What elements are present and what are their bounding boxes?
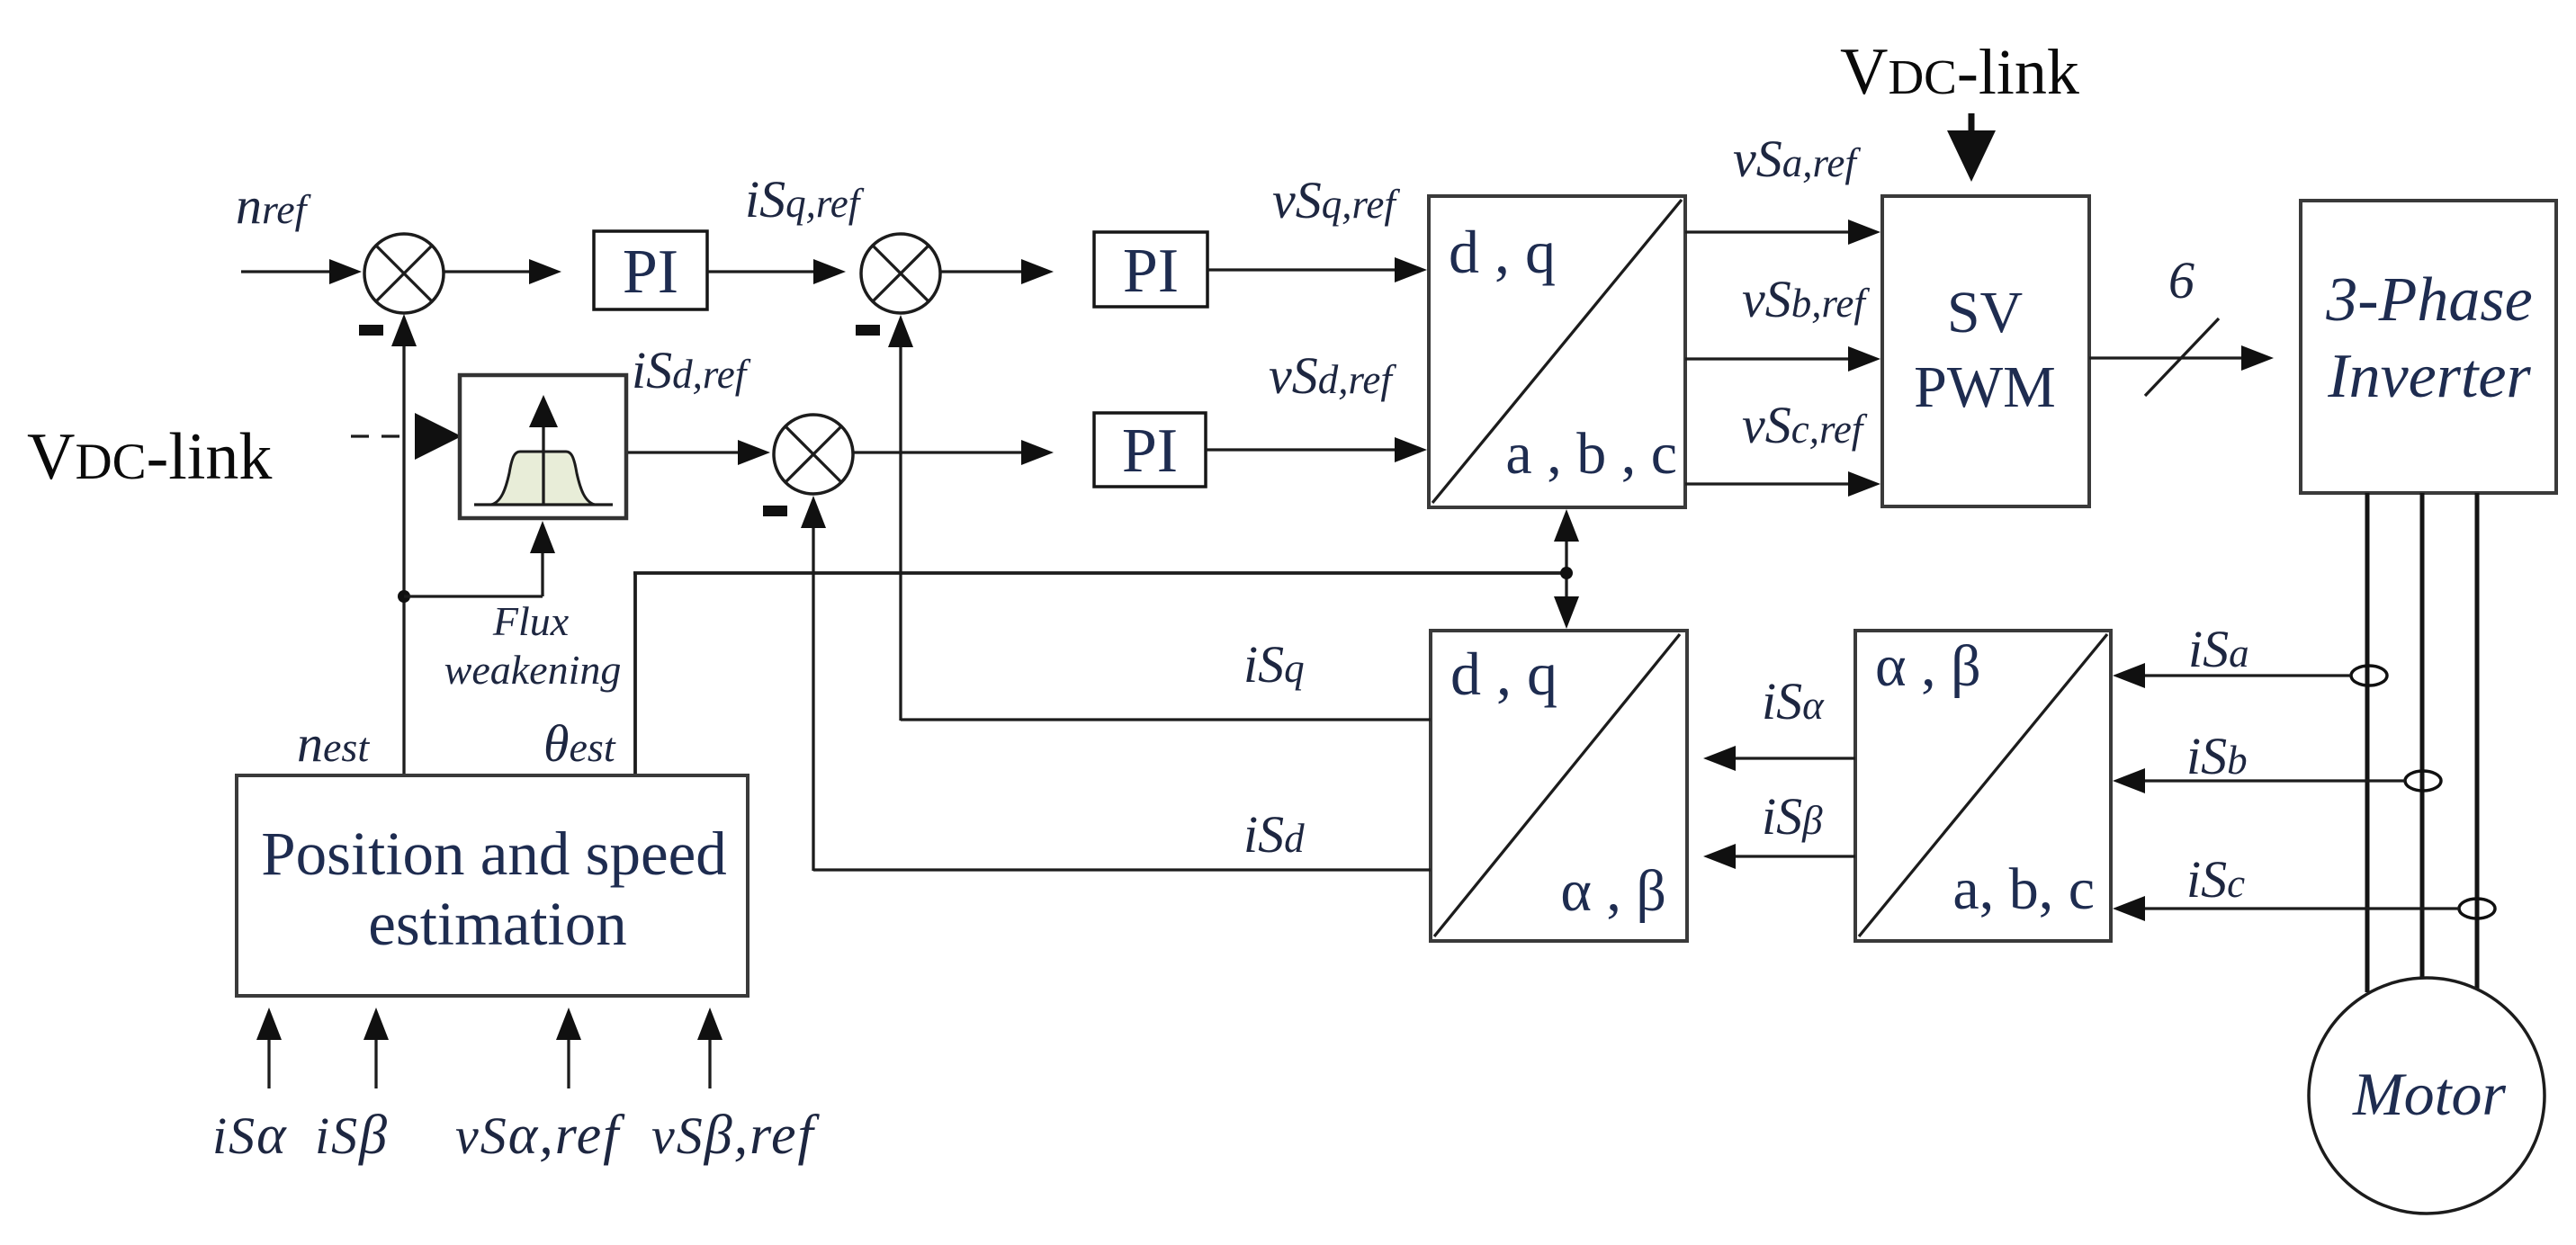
svg-text:weakening: weakening: [444, 647, 622, 693]
minus sign at SJ2: [856, 325, 880, 336]
wire phase a line inverter to motor: [2365, 493, 2370, 992]
minus sign at SJ1: [359, 325, 383, 336]
svg-text:a, b, c: a, b, c: [1952, 856, 2095, 922]
wire iSb sensor to abc-alphabeta transform: [2113, 768, 2405, 793]
svg-text:iSβ: iSβ: [315, 1105, 389, 1166]
wire iSc sensor to abc-alphabeta transform: [2113, 896, 2459, 921]
Motor block: [2309, 978, 2545, 1214]
svg-text:PI: PI: [1123, 237, 1179, 306]
wire flux weakening to SJ3: [628, 440, 770, 465]
bus slash: [2145, 318, 2219, 396]
svg-text:α , β: α , β: [1875, 633, 1981, 699]
wire estimator input vSbeta,ref: [697, 1008, 723, 1088]
summing junction SJ3 (d-axis current): [774, 415, 853, 494]
wire dashed VDC-link input to flux weakening: [351, 413, 462, 460]
svg-text:SV: SV: [1947, 280, 2023, 345]
wire PI3 to dq-abc transform: [1206, 437, 1427, 462]
svg-text:PWM: PWM: [1914, 354, 2056, 420]
svg-text:a , b , c: a , b , c: [1505, 421, 1677, 487]
svg-text:3-Phase: 3-Phase: [2325, 265, 2532, 335]
dq to abc transform block T1: [1429, 196, 1685, 507]
wire vSa,ref T1 to SVPWM: [1685, 219, 1880, 245]
svg-text:6: 6: [2168, 251, 2195, 309]
wire phase c line inverter to motor: [2475, 493, 2480, 990]
wire iSalpha T3 to T2: [1703, 746, 1855, 771]
wire phase b line inverter to motor: [2420, 493, 2425, 979]
svg-text:vSβ,ref: vSβ,ref: [651, 1105, 820, 1166]
wire estimator input vSalpha,ref: [556, 1008, 581, 1088]
flux weakening block F1: [460, 375, 626, 518]
wire PI1 to SJ2: [707, 259, 846, 284]
node junction on n_est wire: [398, 590, 410, 603]
current sensor on phase b: [2405, 771, 2441, 791]
wire branch junction to flux weakening bottom input: [404, 521, 555, 596]
summing junction SJ1 (speed): [364, 234, 444, 313]
wire vSc,ref T1 to SVPWM: [1685, 471, 1880, 497]
SV PWM block: [1882, 196, 2089, 506]
wire theta_est from estimator: up and long horizontal to transforms: [633, 573, 1566, 775]
wire SJ1 to PI1: [444, 259, 561, 284]
PI controller box PI3 (d current): [1094, 413, 1206, 487]
svg-text:estimation: estimation: [368, 890, 626, 958]
PI controller box PI2 (q current): [1094, 232, 1207, 307]
summing junction SJ2 (q-axis current): [861, 234, 940, 313]
wire iSa sensor to abc-alphabeta transform: [2113, 663, 2351, 688]
svg-text:Inverter: Inverter: [2327, 342, 2531, 411]
svg-text:iSα: iSα: [212, 1105, 288, 1166]
svg-text:Motor: Motor: [2352, 1060, 2507, 1128]
svg-text:PI: PI: [1122, 416, 1178, 486]
wire estimator input iSbeta: [364, 1008, 389, 1088]
wire theta double-arrow to both dq transform blocks: [1554, 509, 1579, 629]
wire SJ3 to PI3: [853, 440, 1054, 465]
wire estimator input iSalpha: [256, 1008, 282, 1088]
PI controller box PI1 (speed): [594, 231, 707, 309]
svg-text:α , β: α , β: [1560, 858, 1666, 924]
wire n_est feedback from estimator to SJ1: [391, 314, 417, 775]
wire iSd feedback T2 to SJ3: [801, 496, 1431, 871]
current sensor on phase c: [2459, 899, 2495, 918]
current sensor on phase a: [2351, 666, 2387, 685]
wire vSb,ref T1 to SVPWM: [1685, 346, 1880, 372]
svg-text:d , q: d , q: [1450, 640, 1557, 708]
svg-text:PI: PI: [623, 237, 678, 307]
svg-text:d , q: d , q: [1449, 218, 1556, 286]
wire iSbeta T3 to T2: [1703, 844, 1855, 869]
wire VDC-link arrow into SVPWM top: [1947, 113, 1996, 182]
abc to alphabeta transform block T3: [1855, 631, 2111, 941]
svg-text:VDC-link: VDC-link: [27, 420, 272, 494]
Position and speed estimation block: [237, 775, 748, 996]
3-Phase Inverter block: [2301, 201, 2556, 493]
wire SVPWM to inverter (6 signals): [2089, 345, 2274, 371]
wire PI2 to dq-abc transform: [1207, 257, 1427, 282]
wire speed reference input arrow: [241, 259, 362, 284]
minus sign at SJ3: [763, 506, 787, 516]
dq to alphabeta transform block T2: [1431, 631, 1687, 941]
wire SJ2 to PI2: [940, 259, 1054, 284]
svg-text:Flux: Flux: [492, 598, 570, 644]
node junction theta line: [1560, 567, 1573, 579]
svg-text:vSα,ref: vSα,ref: [455, 1105, 625, 1166]
svg-text:VDC-link: VDC-link: [1840, 35, 2079, 109]
wire iSq feedback T2 to SJ2: [888, 315, 1431, 721]
svg-text:Position and speed: Position and speed: [261, 820, 726, 888]
